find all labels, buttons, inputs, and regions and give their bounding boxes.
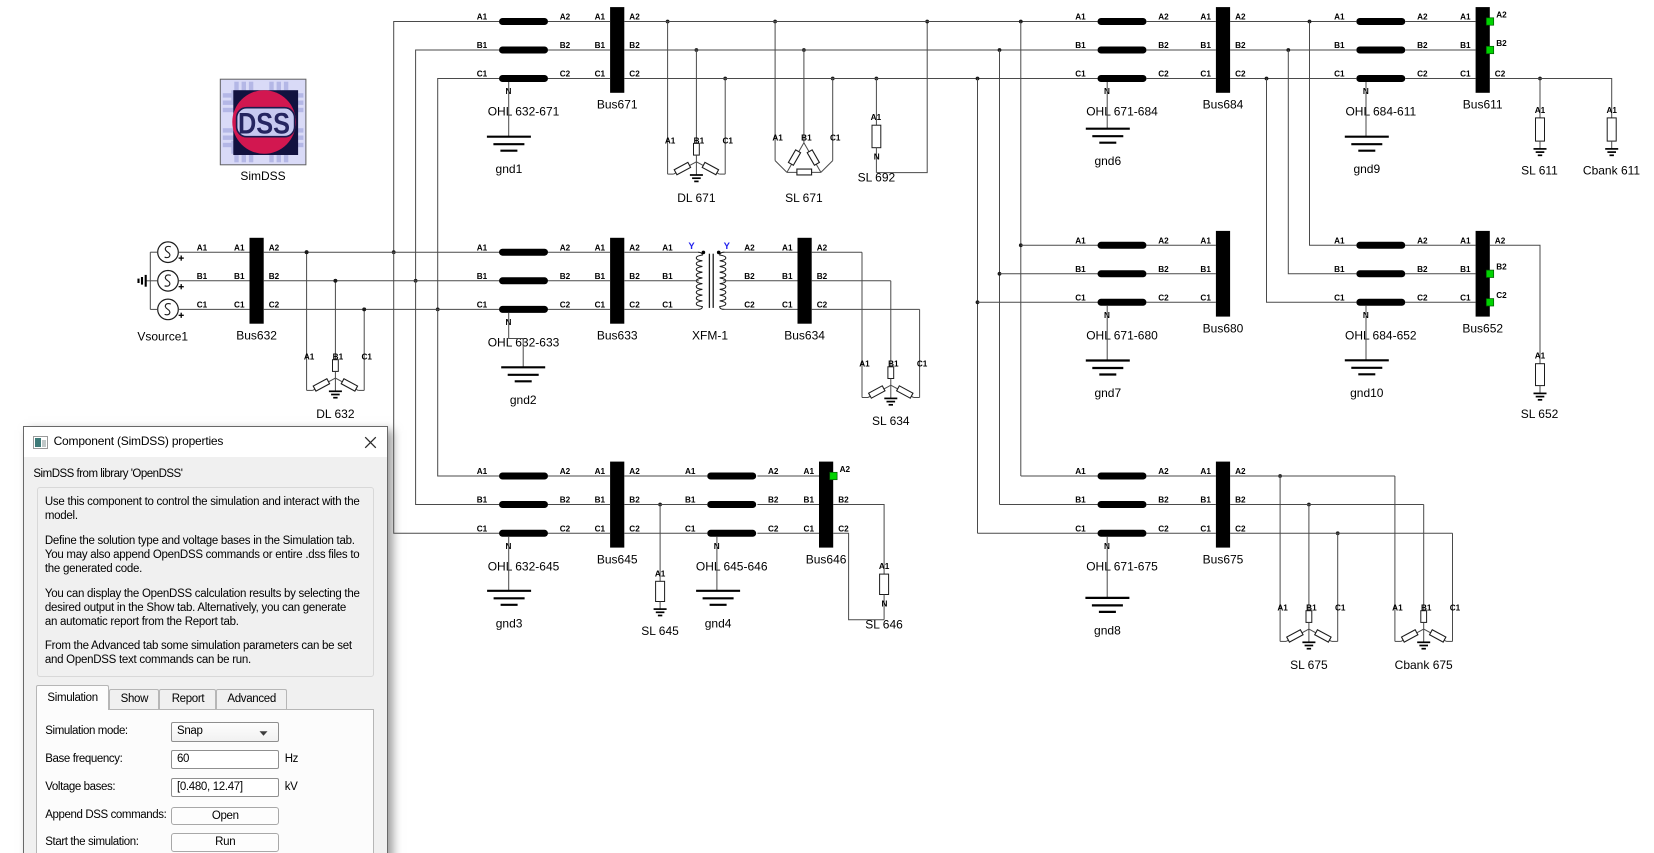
svg-text:A1: A1 xyxy=(804,467,815,476)
svg-text:B2: B2 xyxy=(560,496,571,505)
wire xyxy=(624,78,1097,80)
svg-text:Bus684: Bus684 xyxy=(1203,98,1244,112)
junction xyxy=(305,250,309,254)
append DSS commands row xyxy=(45,809,166,822)
wire xyxy=(1405,244,1475,246)
ground gnd2 xyxy=(501,367,545,407)
wire net A to bottom C row xyxy=(394,252,499,533)
wire xyxy=(1146,21,1216,23)
svg-text:Bus632: Bus632 xyxy=(236,328,277,342)
svg-text:OHL 671-684: OHL 671-684 xyxy=(1086,105,1158,119)
svg-text:SL 645: SL 645 xyxy=(641,624,679,638)
wire xyxy=(548,251,610,253)
svg-text:gnd2: gnd2 xyxy=(510,393,537,407)
svg-text:OHL 632-645: OHL 632-645 xyxy=(488,559,560,573)
bus Bus684 xyxy=(1200,7,1246,111)
label SimDSS xyxy=(240,169,285,183)
overhead line OHL 632-645 xyxy=(477,467,571,573)
svg-text:C2: C2 xyxy=(1235,70,1246,79)
svg-text:C2: C2 xyxy=(560,525,571,534)
svg-text:A1: A1 xyxy=(1460,13,1471,22)
svg-text:A1: A1 xyxy=(662,243,673,252)
svg-text:C2: C2 xyxy=(1417,70,1428,79)
svg-text:Cbank 675: Cbank 675 xyxy=(1395,658,1453,672)
svg-text:gnd1: gnd1 xyxy=(496,162,523,176)
ground gnd7 xyxy=(1086,361,1130,401)
ground gnd10 xyxy=(1345,360,1389,400)
svg-text:C1: C1 xyxy=(477,301,488,310)
svg-text:B2: B2 xyxy=(817,272,828,281)
bus Bus671 xyxy=(595,7,641,111)
wire net B to bottom B row xyxy=(416,281,499,505)
bus Bus652 xyxy=(1460,231,1507,335)
svg-text:A1: A1 xyxy=(1200,467,1211,476)
wire to Cbank 675 C xyxy=(1338,532,1453,534)
svg-text:Bus646: Bus646 xyxy=(806,552,847,566)
wire xyxy=(624,308,697,310)
svg-text:OHL 671-680: OHL 671-680 xyxy=(1086,328,1158,342)
ground gnd6 xyxy=(1086,129,1130,169)
svg-text:A1: A1 xyxy=(595,467,606,476)
wye load Cbank 675 xyxy=(1392,476,1461,672)
overhead line OHL 632-633 xyxy=(477,243,571,349)
ground gnd3 xyxy=(487,591,531,631)
wire xyxy=(264,251,499,253)
svg-text:B2: B2 xyxy=(1235,496,1246,505)
svg-text:A2: A2 xyxy=(629,467,640,476)
svg-text:C2: C2 xyxy=(1158,294,1169,303)
svg-text:SL 611: SL 611 xyxy=(1521,163,1558,177)
svg-text:B2: B2 xyxy=(560,41,571,50)
wire N OHL 671-680 xyxy=(1106,306,1108,361)
svg-text:gnd8: gnd8 xyxy=(1094,623,1121,637)
wire xyxy=(1230,78,1356,80)
svg-text:A1: A1 xyxy=(1460,237,1471,246)
svg-text:Y: Y xyxy=(724,241,731,252)
svg-text:A1: A1 xyxy=(1392,604,1403,613)
svg-text:gnd10: gnd10 xyxy=(1350,386,1384,400)
wire xyxy=(548,475,610,477)
junction xyxy=(362,308,366,312)
svg-text:A1: A1 xyxy=(1334,13,1345,22)
svg-text:B2: B2 xyxy=(629,496,640,505)
wye load SL 675 xyxy=(1277,474,1346,672)
overhead line OHL 671-684 xyxy=(1075,13,1169,119)
wire xyxy=(757,504,819,506)
junction xyxy=(976,77,980,81)
svg-text:B1: B1 xyxy=(685,496,696,505)
wire xyxy=(1000,273,1098,275)
wire xyxy=(1405,49,1475,51)
wire xyxy=(723,280,797,282)
svg-text:B1: B1 xyxy=(477,496,488,505)
svg-text:B1: B1 xyxy=(1075,41,1086,50)
wire xyxy=(548,532,610,534)
svg-text:B2: B2 xyxy=(1496,39,1507,48)
wire xyxy=(624,251,697,253)
junction xyxy=(1286,48,1290,52)
svg-text:C1: C1 xyxy=(1200,525,1211,534)
svg-text:SimDSS: SimDSS xyxy=(240,169,285,183)
svg-text:B2: B2 xyxy=(838,496,849,505)
svg-text:A1: A1 xyxy=(1277,604,1288,613)
svg-text:B1: B1 xyxy=(1075,265,1086,274)
spot load SL 692 xyxy=(858,20,929,185)
wire riser B right xyxy=(999,50,1001,505)
wire xyxy=(624,532,707,534)
wire N OHL 671-684 xyxy=(1106,82,1108,129)
wye load DL 632 xyxy=(304,250,373,421)
dialog title bar xyxy=(24,427,387,457)
wire xyxy=(1146,49,1216,51)
svg-text:B1: B1 xyxy=(477,41,488,50)
wire xyxy=(1146,273,1216,275)
wire xyxy=(548,280,610,282)
svg-text:Cbank 611: Cbank 611 xyxy=(1583,163,1640,177)
svg-text:B2: B2 xyxy=(1158,265,1169,274)
svg-text:C2: C2 xyxy=(629,301,640,310)
svg-text:A1: A1 xyxy=(595,13,606,22)
svg-text:B2: B2 xyxy=(1496,263,1507,272)
junction xyxy=(1019,243,1023,247)
dialog Component (SimDSS) properties xyxy=(23,426,388,853)
junction xyxy=(998,48,1002,52)
overhead line OHL 645-646 xyxy=(685,467,779,573)
svg-text:OHL 632-671: OHL 632-671 xyxy=(488,105,560,119)
svg-text:C1: C1 xyxy=(1334,294,1345,303)
wire N OHL 632-633 (jog) xyxy=(509,313,524,367)
bus Bus632 xyxy=(234,238,280,343)
svg-text:B1: B1 xyxy=(1460,41,1471,50)
wire xyxy=(1405,21,1475,23)
wire xyxy=(723,251,797,253)
overhead line OHL 671-680 xyxy=(1075,237,1169,343)
wire to Cbank 675 B xyxy=(1309,504,1424,506)
wire xyxy=(1146,78,1216,80)
svg-text:C1: C1 xyxy=(804,525,815,534)
voltage bases row xyxy=(45,781,115,794)
svg-text:A1: A1 xyxy=(655,569,666,578)
three-phase voltage source Vsource1 xyxy=(137,242,207,343)
svg-text:A1: A1 xyxy=(782,243,793,252)
svg-text:C1: C1 xyxy=(234,301,245,310)
svg-text:SL 675: SL 675 xyxy=(1290,658,1328,672)
svg-text:A1: A1 xyxy=(1075,467,1086,476)
wire xyxy=(178,280,249,282)
svg-text:A1: A1 xyxy=(1334,237,1345,246)
wire riser C mid xyxy=(1267,79,1357,303)
svg-text:B1: B1 xyxy=(1334,41,1345,50)
svg-text:B2: B2 xyxy=(1158,496,1169,505)
wire xyxy=(548,504,610,506)
wire xyxy=(624,49,1097,51)
svg-text:A1: A1 xyxy=(879,562,890,571)
junction xyxy=(976,300,980,304)
svg-text:Bus634: Bus634 xyxy=(784,328,825,342)
wire xyxy=(1405,301,1475,303)
svg-text:C2: C2 xyxy=(1495,70,1506,79)
svg-text:B1: B1 xyxy=(1460,265,1471,274)
svg-text:B1: B1 xyxy=(804,496,815,505)
wire riser B mid xyxy=(1288,50,1356,274)
svg-text:B1: B1 xyxy=(595,272,606,281)
junction xyxy=(436,308,440,312)
wire xyxy=(1230,49,1356,51)
overhead line OHL 671-675 xyxy=(1075,467,1169,573)
wire N OHL 671-675 xyxy=(1106,537,1108,598)
svg-text:B1: B1 xyxy=(1200,41,1211,50)
svg-text:A1: A1 xyxy=(197,243,208,252)
svg-text:B2: B2 xyxy=(269,272,280,281)
svg-text:B1: B1 xyxy=(1334,265,1345,274)
wire xyxy=(548,308,610,310)
wire to SL 634 B xyxy=(812,280,891,282)
svg-text:Bus675: Bus675 xyxy=(1203,552,1244,566)
svg-text:A2: A2 xyxy=(1417,13,1428,22)
svg-text:C1: C1 xyxy=(1460,70,1471,79)
svg-text:gnd3: gnd3 xyxy=(496,616,523,630)
svg-text:A2: A2 xyxy=(1235,467,1246,476)
svg-text:OHL 684-611: OHL 684-611 xyxy=(1345,105,1416,119)
svg-text:A1: A1 xyxy=(595,243,606,252)
junction xyxy=(1265,77,1269,81)
svg-text:C1: C1 xyxy=(1075,70,1086,79)
delta load SL 671 xyxy=(772,20,841,205)
wire xyxy=(178,251,249,253)
dialog icon xyxy=(33,436,48,449)
wire xyxy=(1405,78,1475,80)
svg-text:A1: A1 xyxy=(304,353,315,362)
svg-text:A2: A2 xyxy=(1158,237,1169,246)
transformer XFM-1 xyxy=(662,241,755,343)
svg-text:C2: C2 xyxy=(1235,525,1246,534)
svg-text:Bus645: Bus645 xyxy=(597,552,638,566)
spot load SL 652 xyxy=(1490,245,1559,421)
wire xyxy=(548,21,610,23)
svg-text:A1: A1 xyxy=(477,243,488,252)
svg-text:SL 634: SL 634 xyxy=(872,414,910,428)
wire xyxy=(1021,244,1098,246)
wire riser C right xyxy=(977,79,979,534)
svg-text:B2: B2 xyxy=(1235,41,1246,50)
wire xyxy=(723,308,797,310)
wire xyxy=(264,308,499,310)
svg-text:A2: A2 xyxy=(269,243,280,252)
svg-text:A2: A2 xyxy=(1158,467,1169,476)
svg-text:B1: B1 xyxy=(801,134,812,143)
svg-text:Bus611: Bus611 xyxy=(1463,98,1503,112)
wire riser A right xyxy=(1020,22,1022,477)
wire xyxy=(624,504,707,506)
svg-text:Y: Y xyxy=(688,241,695,252)
junction xyxy=(1308,20,1312,24)
wire xyxy=(757,532,819,534)
wire xyxy=(757,475,819,477)
svg-text:A1: A1 xyxy=(1535,352,1546,361)
svg-text:B1: B1 xyxy=(595,496,606,505)
svg-text:C2: C2 xyxy=(560,70,571,79)
svg-text:C2: C2 xyxy=(1158,70,1169,79)
tab Report xyxy=(159,689,216,710)
svg-text:C1: C1 xyxy=(1450,604,1461,613)
svg-text:Bus652: Bus652 xyxy=(1462,321,1503,335)
spot load SL 645 xyxy=(641,503,679,638)
svg-text:A2: A2 xyxy=(1495,237,1506,246)
svg-text:B1: B1 xyxy=(197,272,208,281)
wire xyxy=(1021,475,1098,477)
wire xyxy=(1230,21,1356,23)
wire N OHL 632-671 xyxy=(508,82,510,137)
wire xyxy=(548,49,610,51)
svg-text:A1: A1 xyxy=(772,134,783,143)
wire xyxy=(178,308,249,310)
bus Bus675 xyxy=(1200,462,1246,567)
svg-text:A2: A2 xyxy=(560,243,571,252)
wire xyxy=(978,301,1098,303)
spot load SL 611 xyxy=(1521,77,1558,178)
svg-text:C1: C1 xyxy=(595,525,606,534)
ground gnd8 xyxy=(1085,598,1129,638)
wire xyxy=(1405,273,1475,275)
SimDSS component icon xyxy=(220,79,306,165)
svg-text:C1: C1 xyxy=(1200,70,1211,79)
svg-text:OHL 645-646: OHL 645-646 xyxy=(696,559,768,573)
bus Bus634 xyxy=(782,238,828,343)
svg-text:C2: C2 xyxy=(1158,525,1169,534)
svg-text:C2: C2 xyxy=(744,301,755,310)
svg-text:A1: A1 xyxy=(1075,13,1086,22)
svg-text:C1: C1 xyxy=(782,301,793,310)
svg-text:B2: B2 xyxy=(744,272,755,281)
svg-text:A2: A2 xyxy=(768,467,779,476)
wire xyxy=(1230,475,1280,477)
svg-text:SL 671: SL 671 xyxy=(785,191,823,205)
wye load SL 634 xyxy=(859,252,928,428)
tab panel xyxy=(36,709,375,853)
overhead line OHL 684-652 xyxy=(1334,237,1428,343)
svg-text:N: N xyxy=(874,153,880,162)
svg-text:B2: B2 xyxy=(629,41,640,50)
wire xyxy=(624,21,1097,23)
wire xyxy=(624,280,699,282)
tab Simulation (selected) xyxy=(36,685,109,710)
svg-text:A2: A2 xyxy=(629,243,640,252)
svg-text:C1: C1 xyxy=(1335,604,1346,613)
wire to Cbank 675 A xyxy=(1280,475,1395,477)
svg-text:B2: B2 xyxy=(560,272,571,281)
svg-text:C2: C2 xyxy=(838,525,849,534)
ground gnd4 xyxy=(696,591,740,631)
svg-text:DL 632: DL 632 xyxy=(316,407,355,421)
svg-text:C1: C1 xyxy=(917,360,928,369)
description group box xyxy=(37,487,374,678)
svg-text:OHL 684-652: OHL 684-652 xyxy=(1345,328,1417,342)
wire N OHL 645-646 xyxy=(716,537,718,591)
close button xyxy=(364,436,377,449)
tab Show xyxy=(109,689,159,710)
svg-text:A1: A1 xyxy=(1535,106,1546,115)
wire xyxy=(1146,301,1216,303)
wire xyxy=(1146,244,1216,246)
svg-text:C1: C1 xyxy=(1200,294,1211,303)
svg-text:C2: C2 xyxy=(817,301,828,310)
svg-text:C1: C1 xyxy=(685,525,696,534)
svg-text:B1: B1 xyxy=(595,41,606,50)
svg-text:C1: C1 xyxy=(1334,70,1345,79)
wire net A top-left riser xyxy=(394,22,499,253)
svg-text:B1: B1 xyxy=(662,272,673,281)
wire to SL 634 C xyxy=(812,308,920,310)
svg-text:C2: C2 xyxy=(560,301,571,310)
bus Bus680 xyxy=(1200,231,1243,335)
svg-text:C1: C1 xyxy=(477,70,488,79)
svg-text:DSS: DSS xyxy=(238,107,290,140)
svg-text:gnd9: gnd9 xyxy=(1353,162,1380,176)
svg-text:B2: B2 xyxy=(768,496,779,505)
svg-text:A2: A2 xyxy=(744,243,755,252)
bus Bus633 xyxy=(595,238,641,343)
svg-text:XFM-1: XFM-1 xyxy=(692,329,728,343)
svg-text:A1: A1 xyxy=(1075,237,1086,246)
bus Bus645 xyxy=(595,462,641,567)
wire xyxy=(624,475,707,477)
svg-text:A2: A2 xyxy=(560,13,571,22)
svg-text:DL 671: DL 671 xyxy=(677,191,716,205)
svg-text:B1: B1 xyxy=(477,272,488,281)
svg-text:A1: A1 xyxy=(1200,237,1211,246)
wire xyxy=(264,280,499,282)
spot load SL 646 xyxy=(833,505,903,632)
wire xyxy=(1146,504,1216,506)
svg-text:B1: B1 xyxy=(1200,265,1211,274)
junction xyxy=(392,250,396,254)
svg-text:C1: C1 xyxy=(197,301,208,310)
svg-text:C1: C1 xyxy=(1075,294,1086,303)
svg-text:A1: A1 xyxy=(1200,13,1211,22)
svg-text:SL 646: SL 646 xyxy=(865,617,903,631)
svg-text:gnd6: gnd6 xyxy=(1094,154,1121,168)
svg-text:N: N xyxy=(881,599,887,608)
svg-text:gnd7: gnd7 xyxy=(1094,386,1121,400)
wire N OHL 632-645 xyxy=(508,537,510,591)
svg-text:SL 652: SL 652 xyxy=(1521,407,1559,421)
svg-text:C2: C2 xyxy=(629,525,640,534)
junction xyxy=(1019,20,1023,24)
wire xyxy=(1146,532,1216,534)
wye load DL 671 xyxy=(665,20,734,205)
junction xyxy=(334,279,338,283)
svg-text:A1: A1 xyxy=(871,113,882,122)
wire net C to bottom A row xyxy=(438,309,499,476)
svg-text:A2: A2 xyxy=(1235,13,1246,22)
wire net C top-left riser xyxy=(438,79,499,310)
svg-text:C1: C1 xyxy=(361,353,372,362)
svg-text:C2: C2 xyxy=(768,525,779,534)
wire xyxy=(1146,475,1216,477)
wire N OHL 684-611 xyxy=(1365,82,1367,137)
svg-text:B1: B1 xyxy=(782,272,793,281)
svg-text:C2: C2 xyxy=(269,301,280,310)
simulation mode row xyxy=(45,725,127,738)
svg-text:C1: C1 xyxy=(662,301,673,310)
svg-text:B2: B2 xyxy=(629,272,640,281)
svg-text:A2: A2 xyxy=(817,243,828,252)
wire xyxy=(1000,504,1098,506)
svg-text:C1: C1 xyxy=(477,525,488,534)
capacitor bank Cbank 611 xyxy=(1490,79,1641,178)
svg-text:Vsource1: Vsource1 xyxy=(137,329,188,343)
wire xyxy=(978,532,1098,534)
